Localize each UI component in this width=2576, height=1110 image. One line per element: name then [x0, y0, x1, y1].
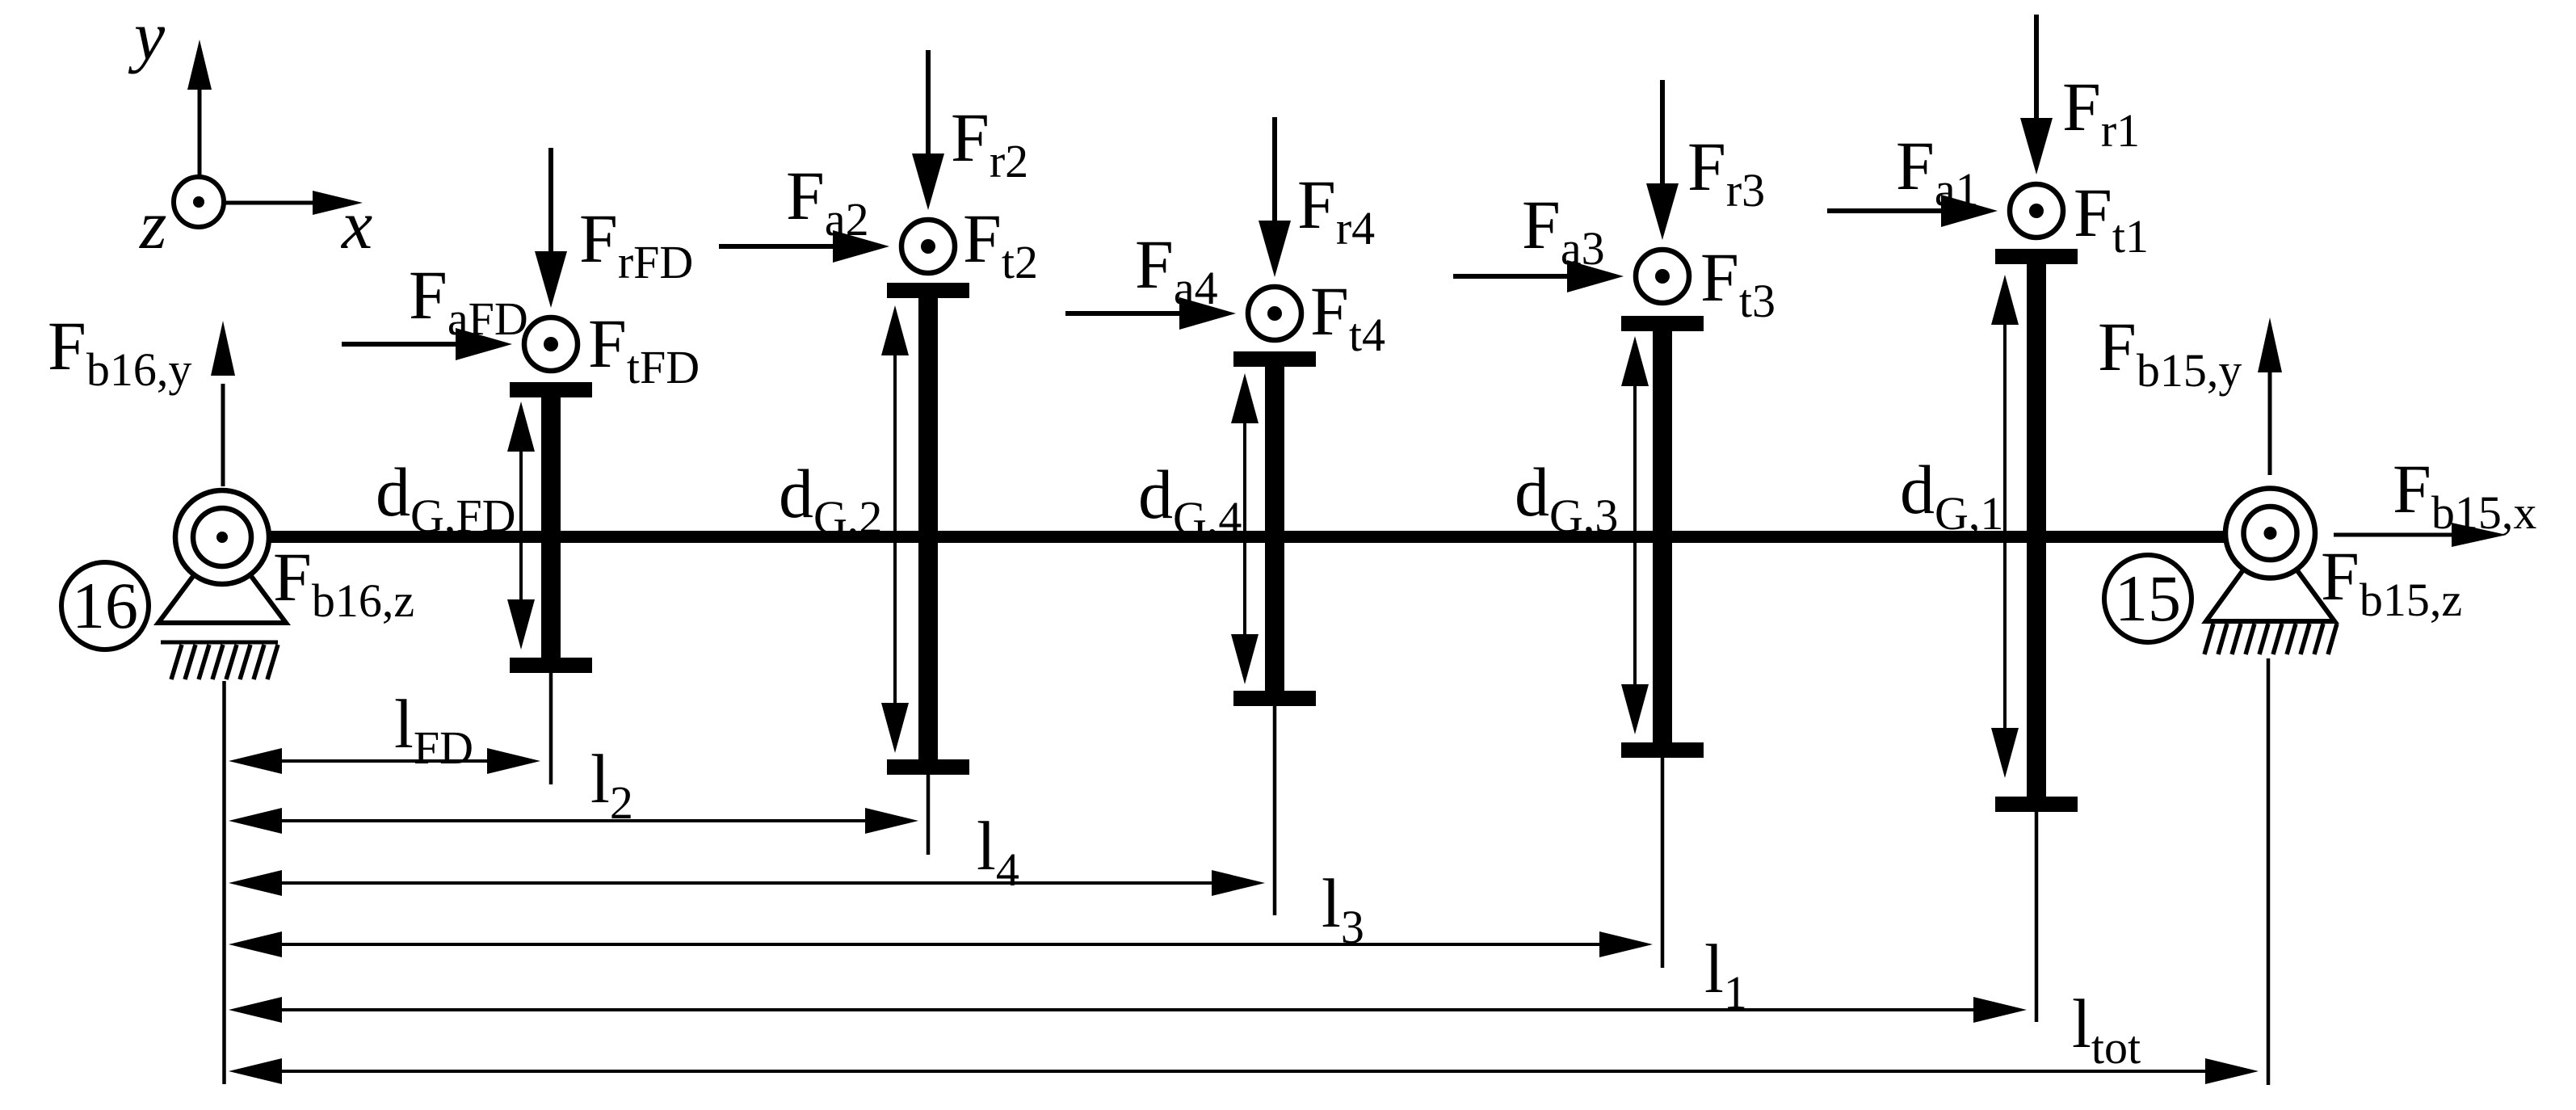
label F_a3 [1522, 186, 1605, 275]
label l_1 [1704, 930, 1747, 1019]
label F_r2 [951, 99, 1028, 187]
svg-text:y: y [128, 0, 166, 74]
bearing 15 id circle [2104, 555, 2191, 642]
dimension arrow l_4 [229, 870, 1265, 896]
label F_t1 [2074, 174, 2149, 263]
dimension arrow d_G,FD [507, 402, 535, 650]
force arrow F_a3 [1453, 260, 1624, 292]
bearing 16 ground hatching [161, 642, 278, 679]
force arrow F_aFD [342, 328, 512, 360]
bearing reaction arrow F_b15,y [2258, 317, 2282, 475]
label F_r1 [2062, 68, 2140, 157]
bearing 15 ground hatching [2204, 624, 2337, 654]
bearing 16 journal symbol [175, 490, 269, 584]
label d_G,2 [779, 455, 882, 544]
force arrow F_a2 [719, 230, 889, 263]
label F_a4 [1135, 225, 1218, 314]
axis label x [340, 186, 372, 263]
gear 2 body [887, 283, 969, 775]
gear 3 centre line below [1661, 758, 1665, 968]
label F_r3 [1687, 128, 1765, 217]
label F_tFD [588, 305, 700, 393]
label F_a1 [1896, 127, 1979, 216]
force arrow F_r4 [1259, 117, 1291, 277]
dimension arrow l_3 [229, 931, 1653, 957]
bearing 16 id circle [61, 562, 149, 650]
gear 1 centre line below [2035, 812, 2039, 1022]
dimension arrow d_G,2 [881, 305, 909, 753]
force symbol F_t4 (out of page) [1248, 287, 1301, 340]
force symbol F_t2 (out of page) [901, 220, 955, 273]
bearing 16 reference line [222, 681, 226, 1084]
label F_r4 [1297, 166, 1375, 254]
label l_FD [394, 685, 473, 774]
label F_t4 [1310, 272, 1385, 361]
label l_2 [590, 740, 633, 829]
svg-text:15: 15 [2115, 561, 2181, 635]
gear 4 body [1233, 351, 1316, 706]
dimension arrow d_G,4 [1231, 373, 1259, 684]
shaft [267, 531, 2227, 543]
label F_b16,y [48, 307, 191, 396]
gear 1 body [1995, 249, 2078, 812]
svg-text:16: 16 [72, 569, 138, 642]
label F_t3 [1700, 238, 1775, 327]
dimension arrow l_FD [229, 748, 540, 774]
bearing 15 journal symbol [2225, 489, 2315, 578]
force arrow F_r3 [1646, 80, 1679, 240]
label d_G,FD [376, 453, 516, 542]
force arrow F_a4 [1065, 297, 1236, 330]
label l_tot [2072, 985, 2141, 1074]
label F_t2 [963, 200, 1038, 288]
bearing reaction arrow F_b15,x [2334, 523, 2507, 547]
label F_b15,z [2321, 537, 2462, 626]
label F_b15,x [2393, 450, 2536, 539]
label F_rFD [579, 200, 693, 288]
bearing 16 support triangle [158, 537, 286, 623]
axis label y [128, 0, 166, 74]
label F_a2 [786, 157, 869, 246]
label l_3 [1322, 864, 1364, 953]
force symbol F_t3 (out of page) [1636, 250, 1689, 303]
label l_4 [977, 807, 1019, 896]
dimension arrow l_2 [229, 808, 918, 834]
bearing reaction arrow F_b16,y [211, 321, 235, 486]
force arrow F_r2 [912, 50, 944, 210]
label d_G,4 [1138, 456, 1242, 544]
gear FD centre line below [549, 673, 553, 784]
axis y arrow [187, 40, 212, 177]
label F_b15,y [2098, 308, 2242, 397]
dimension arrow l_tot [229, 1058, 2259, 1084]
dimension arrow d_G,1 [1991, 275, 2019, 778]
force arrow F_r1 [2020, 15, 2053, 174]
label F_aFD [409, 256, 528, 345]
gear 2 centre line below [927, 775, 931, 855]
gear 3 body [1621, 316, 1704, 758]
label d_G,1 [1900, 451, 2003, 540]
label F_b16,z [273, 538, 414, 627]
force arrow F_a1 [1827, 195, 1998, 227]
gear FD body [510, 382, 592, 673]
svg-text:x: x [340, 186, 372, 263]
dimension arrow l_1 [229, 997, 2027, 1023]
force symbol F_tFD (out of page) [524, 317, 578, 371]
force symbol F_t1 (out of page) [2010, 184, 2063, 238]
axis x arrow [225, 191, 363, 215]
bearing 15 reference line [2267, 658, 2271, 1085]
coordinate axis origin (z out of page) [174, 177, 224, 227]
axis label z [139, 186, 166, 263]
svg-text:z: z [139, 186, 166, 263]
dimension arrow d_G,3 [1621, 336, 1649, 734]
gear 4 centre line below [1273, 706, 1277, 915]
bearing 15 support triangle [2206, 533, 2334, 621]
label d_G,3 [1515, 453, 1618, 542]
force arrow F_rFD [535, 148, 567, 308]
